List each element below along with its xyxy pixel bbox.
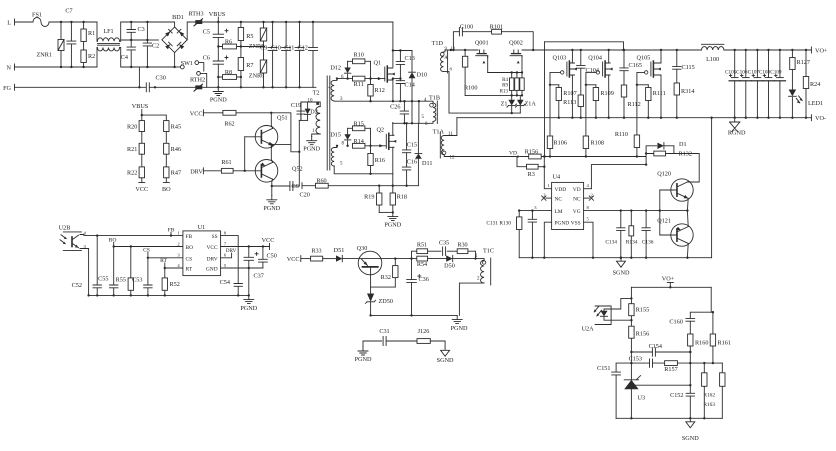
wire fb bottom rail xyxy=(616,417,722,419)
resistor R24 xyxy=(803,50,808,118)
capacitor C31 xyxy=(383,337,386,346)
label U2B pin4 xyxy=(84,231,87,236)
wire R3/R156 join xyxy=(544,157,551,189)
wire T1C top xyxy=(481,259,484,261)
label SGND fb2 xyxy=(682,435,699,442)
pin circle Q104 gate xyxy=(596,71,599,74)
label T2 xyxy=(313,90,320,97)
wire R33 to D51 xyxy=(323,258,336,260)
label U1 pin6 xyxy=(224,253,227,258)
wire Q104 gate xyxy=(586,72,596,84)
svg-text:FG: FG xyxy=(3,85,11,92)
transistor Q51 xyxy=(255,126,278,149)
wire divider left xyxy=(141,115,143,121)
capacitor C151 xyxy=(612,372,621,418)
resistor R6 xyxy=(218,44,241,49)
wire Q51 collector xyxy=(271,113,272,129)
capacitor C11 xyxy=(295,22,304,87)
label C2 xyxy=(152,43,159,50)
label R107 xyxy=(563,90,576,97)
svg-text:C53: C53 xyxy=(132,277,142,284)
junction VCC q5 xyxy=(270,112,272,114)
label VCC q5 xyxy=(190,110,203,117)
svg-text:Q002: Q002 xyxy=(509,40,523,47)
svg-text:PGND: PGND xyxy=(451,325,468,332)
svg-text:C100: C100 xyxy=(460,24,473,31)
resistor R155 xyxy=(629,298,634,320)
label VCC div xyxy=(135,186,148,193)
wire fb top line xyxy=(631,286,711,288)
wire U4 VSS pin xyxy=(584,222,593,258)
resistor R160 xyxy=(688,334,693,363)
svg-text:R157: R157 xyxy=(664,366,677,373)
resistor R111 xyxy=(646,85,651,118)
label R156 xyxy=(525,149,538,156)
label R132 xyxy=(679,151,692,158)
svg-text:C6: C6 xyxy=(203,55,210,62)
label R130 xyxy=(499,220,511,226)
junction gate bottom node xyxy=(511,94,524,96)
switch SW1 contact c xyxy=(197,72,207,88)
capacitor C10 xyxy=(282,22,291,87)
svg-text:C152: C152 xyxy=(670,392,683,399)
svg-text:SGND: SGND xyxy=(437,357,454,364)
wire R21 to next xyxy=(141,154,143,167)
label T1 pin6 xyxy=(341,75,344,80)
label R5 xyxy=(246,33,253,40)
label R163 xyxy=(703,402,715,408)
label U1 pin4 xyxy=(177,263,180,268)
wire C31 to J126 xyxy=(386,340,417,342)
svg-text:R55: R55 xyxy=(116,277,126,284)
node VCC div tick xyxy=(139,182,145,184)
label R30 xyxy=(457,242,467,249)
capacitor C5 xyxy=(213,22,228,47)
label U4 pin8 xyxy=(587,205,590,210)
transistor Q120 xyxy=(671,179,693,201)
svg-text:R113: R113 xyxy=(563,99,576,106)
inductor LF1 top winding xyxy=(97,38,119,41)
wire U1 common rail xyxy=(89,294,249,296)
label T1C pin2 xyxy=(477,277,480,282)
resistor R2 xyxy=(81,45,86,68)
wire Q30 bottom rail xyxy=(371,314,458,316)
wire N to LF1 bottom xyxy=(96,48,98,68)
svg-text:DRV: DRV xyxy=(190,168,203,175)
label R106 xyxy=(554,140,567,147)
wire Q105 gate node to R111 xyxy=(637,84,648,86)
svg-text:A: A xyxy=(444,56,448,61)
wire Q52 collector xyxy=(271,144,272,162)
wire secondary rail xyxy=(522,49,702,51)
svg-text:VO+: VO+ xyxy=(662,275,675,282)
IC U1 pin texts xyxy=(186,234,218,273)
label LF1 xyxy=(103,28,113,35)
wire R46 to next xyxy=(165,154,167,167)
svg-text:J126: J126 xyxy=(418,328,430,335)
wire base riser xyxy=(244,137,246,171)
label R19 xyxy=(364,194,374,201)
resistor R16 xyxy=(368,146,373,174)
svg-text:C30: C30 xyxy=(156,75,166,82)
label C107 xyxy=(748,70,760,76)
junction gate line Q1 xyxy=(336,77,372,79)
junction D1 left xyxy=(645,152,647,154)
svg-text:Q103: Q103 xyxy=(553,55,567,62)
terminal FG xyxy=(14,84,16,90)
label R55 xyxy=(116,277,126,284)
label R47 xyxy=(171,170,181,177)
svg-text:RT: RT xyxy=(160,258,167,264)
resistor R15 xyxy=(348,126,371,131)
svg-text:R11: R11 xyxy=(354,81,364,88)
svg-text:BO: BO xyxy=(186,245,194,251)
resistor R109 xyxy=(593,85,598,118)
label FB u1 xyxy=(168,227,175,233)
wire bridge top to rail xyxy=(173,22,176,27)
svg-text:T2: T2 xyxy=(313,90,320,97)
wire RTH3 to VBUS xyxy=(203,21,219,23)
capacitor C2 xyxy=(143,22,151,67)
label C7 xyxy=(65,8,72,15)
svg-text:11: 11 xyxy=(448,132,453,137)
resistor R12 xyxy=(368,79,373,102)
svg-text:CS: CS xyxy=(143,247,150,253)
transistor Q2 MOSFET xyxy=(386,133,396,149)
label C100 xyxy=(460,24,473,31)
label R100 xyxy=(464,85,477,92)
inductor LF1 bottom winding xyxy=(97,48,119,51)
svg-text:VCC: VCC xyxy=(262,237,275,244)
ground PGND j126 xyxy=(358,347,368,355)
label C15 xyxy=(407,142,417,149)
label R108 xyxy=(591,140,604,147)
label T2 pin10 xyxy=(308,99,314,104)
svg-text:D10: D10 xyxy=(417,72,428,79)
svg-text:VD: VD xyxy=(573,187,581,193)
resistor R7 xyxy=(238,47,243,78)
label T2 pin1 xyxy=(312,129,315,134)
resistor R108 xyxy=(583,85,588,157)
label C4 xyxy=(121,54,128,61)
resistor R47 xyxy=(164,167,169,178)
svg-text:ZNR1: ZNR1 xyxy=(37,52,52,59)
label R3 xyxy=(528,171,535,178)
resistor R1 xyxy=(81,22,86,45)
label C152 xyxy=(670,392,683,399)
svg-text:R9: R9 xyxy=(502,84,508,89)
ground SGND fb xyxy=(686,418,695,428)
svg-text:D51: D51 xyxy=(334,247,345,254)
wire DRV line xyxy=(203,170,261,172)
svg-text:R7: R7 xyxy=(246,62,253,69)
svg-text:R161: R161 xyxy=(718,340,731,347)
wire U4 VG pin xyxy=(584,210,688,212)
svg-text:C3: C3 xyxy=(138,26,145,33)
wire U2B emitter xyxy=(80,249,89,296)
label R2 xyxy=(88,53,95,60)
junction output rail xyxy=(734,49,808,51)
svg-text:C160: C160 xyxy=(669,318,682,325)
label R60 xyxy=(316,178,326,185)
wire RTH2 to PGND rail xyxy=(203,86,317,88)
junction bottom rail xyxy=(558,117,808,119)
svg-text:R160: R160 xyxy=(695,340,708,347)
label R62 xyxy=(224,121,234,128)
svg-text:Q104: Q104 xyxy=(588,55,602,62)
label C108 xyxy=(759,70,771,76)
svg-text:C7: C7 xyxy=(65,8,72,15)
label C54 xyxy=(220,279,230,286)
ground PGND bulk xyxy=(213,87,223,95)
svg-text:D15: D15 xyxy=(330,132,341,139)
wire CS line u1 xyxy=(148,257,183,259)
wire T1A pin11 riser xyxy=(444,118,457,136)
capacitor C160 xyxy=(686,312,713,334)
thermistor RTH3 xyxy=(194,19,203,26)
resistor R13 xyxy=(520,73,524,96)
junction FB line xyxy=(96,234,172,236)
capacitor C16 xyxy=(402,166,410,186)
svg-text:PGND: PGND xyxy=(384,222,401,229)
svg-text:Q2: Q2 xyxy=(376,127,384,134)
wire Q51 base xyxy=(245,136,262,138)
wire j126 right xyxy=(430,341,445,347)
label T1D pin910 xyxy=(445,46,448,51)
svg-text:U2B: U2B xyxy=(59,225,71,232)
wire R14 to Q2 gate xyxy=(365,145,386,147)
label D12 xyxy=(330,65,341,72)
label T1 pin5 xyxy=(340,162,343,167)
label R61 xyxy=(221,159,231,166)
label ZNR6 xyxy=(249,73,264,80)
junction bridge bottom xyxy=(173,66,175,68)
capacitor C107 xyxy=(752,50,763,118)
junction gate line Q2 xyxy=(346,145,371,147)
wire Q1 drain stub xyxy=(391,67,394,69)
label VCC q30 xyxy=(287,256,300,263)
label PGND u1 xyxy=(240,305,257,312)
label C154 xyxy=(649,343,662,350)
wire gate resistor top node xyxy=(488,72,522,74)
junction C100 right xyxy=(532,49,534,51)
capacitor C134 xyxy=(617,211,625,258)
junction T1C node xyxy=(474,257,476,259)
junction R106 bottom xyxy=(549,155,551,157)
label N xyxy=(7,65,12,72)
label Q002 xyxy=(509,40,523,47)
terminal VO+ fb xyxy=(667,282,673,284)
label PGND Q2 xyxy=(384,222,401,229)
zener ZD50 xyxy=(366,294,376,316)
label R110 xyxy=(615,131,628,138)
label Q104 xyxy=(588,55,602,62)
svg-text:R106: R106 xyxy=(554,140,567,147)
svg-text:PGND: PGND xyxy=(303,146,320,153)
wire R22 to VCC xyxy=(141,178,143,183)
bridge BD1 diode 1 xyxy=(165,29,172,36)
svg-text:L100: L100 xyxy=(706,56,719,63)
transformer T2 phase dot xyxy=(316,102,319,105)
shunt regulator U3 xyxy=(624,363,640,418)
svg-text:R18: R18 xyxy=(397,194,407,201)
wire Q30 collector to zener xyxy=(370,275,372,294)
junction line B xyxy=(645,163,647,165)
svg-text:R109: R109 xyxy=(600,90,613,97)
svg-text:D2: D2 xyxy=(310,109,318,116)
svg-text:R62: R62 xyxy=(224,121,234,128)
svg-text:C11: C11 xyxy=(284,45,294,52)
label R11 xyxy=(354,81,364,88)
wire Q1 body stub xyxy=(391,73,394,75)
svg-text:C31: C31 xyxy=(379,328,389,335)
svg-text:PGND: PGND xyxy=(263,205,280,212)
resistor R33 xyxy=(311,256,323,261)
svg-text:D11: D11 xyxy=(422,160,432,167)
label J126 xyxy=(418,328,430,335)
wire to LF1 top xyxy=(96,22,98,41)
zener Z1 xyxy=(507,95,517,113)
wire rail1 xyxy=(334,100,419,102)
resistor R60 xyxy=(316,183,329,188)
junction c160 node xyxy=(712,311,714,313)
transformer T2 winding xyxy=(316,107,320,135)
wire Q105 drain xyxy=(658,50,661,63)
junction fb top xyxy=(669,286,671,288)
resistor R9 xyxy=(515,73,519,96)
capacitor C26 xyxy=(400,101,408,123)
junction C26 top xyxy=(403,100,405,102)
junction C2 xyxy=(130,21,149,68)
optocoupler U2B xyxy=(60,232,81,251)
ground PGND T2 xyxy=(307,137,317,145)
bridge BD1 diode 4 xyxy=(177,42,184,49)
wire T1D bottom return xyxy=(444,72,521,114)
junction VCC pin xyxy=(248,245,264,247)
transformer T1A phase xyxy=(443,151,446,154)
junction Q30 right xyxy=(394,257,413,259)
label T1 pin3 xyxy=(340,97,343,102)
svg-text:LM: LM xyxy=(555,209,563,215)
wire fuse to rail xyxy=(49,21,97,23)
svg-text:R33: R33 xyxy=(311,248,321,255)
svg-text:T1C: T1C xyxy=(483,248,494,255)
wire R101 to rail right xyxy=(502,32,534,50)
wire VCC right jog xyxy=(271,113,299,152)
label L100 xyxy=(706,56,719,63)
svg-text:R100: R100 xyxy=(464,85,477,92)
capacitor C7 xyxy=(67,22,76,67)
IC U4 NC left stub xyxy=(542,196,552,200)
transistor Q002 MOSFET xyxy=(510,50,522,63)
capacitor C153 xyxy=(631,359,664,367)
resistor R45 xyxy=(164,121,169,132)
wire rail after L100 xyxy=(724,49,812,51)
label PGND q52 xyxy=(263,205,280,212)
svg-text:ZD50: ZD50 xyxy=(379,298,393,305)
wire VD net line xyxy=(544,156,646,158)
svg-text:C54: C54 xyxy=(220,279,230,286)
svg-text:PGND: PGND xyxy=(355,356,372,363)
label R134 xyxy=(626,240,638,246)
resistor R52 xyxy=(162,268,167,295)
transformer T1A core xyxy=(439,132,441,158)
diode D2 xyxy=(305,102,311,120)
diode D10 xyxy=(409,51,416,124)
junction C30 right xyxy=(138,86,156,88)
wire source to C13/C14 mid xyxy=(393,78,401,80)
wire T2 top xyxy=(311,102,320,107)
transformer T1C phase xyxy=(482,261,485,264)
label U3 xyxy=(638,395,646,402)
svg-text:R4: R4 xyxy=(502,78,508,83)
resistor R161 xyxy=(710,334,715,363)
label R160 xyxy=(695,340,708,347)
bridge BD1 outline xyxy=(162,27,187,53)
label U2B xyxy=(59,225,71,232)
transistor Q103 MOSFET xyxy=(567,61,577,77)
label R10 xyxy=(354,52,364,59)
wire divider split xyxy=(142,115,167,121)
label U4 pin1 xyxy=(547,183,550,188)
wire Q2 source xyxy=(393,147,394,185)
capacitor C55 xyxy=(110,247,118,296)
terminal VCC q30 xyxy=(300,256,302,262)
wire R54 to D50 xyxy=(428,258,446,260)
wire snubber top xyxy=(393,50,412,52)
wire N line xyxy=(15,66,98,68)
junction C154 ends xyxy=(630,351,691,353)
wire bridge right up xyxy=(187,22,195,40)
label C55 xyxy=(98,276,108,283)
label R24 xyxy=(810,81,820,88)
capacitor C37 xyxy=(244,247,258,269)
svg-text:VDD: VDD xyxy=(555,187,567,193)
svg-text:R111: R111 xyxy=(653,90,666,97)
resistor R130 xyxy=(517,211,522,258)
node DRV tick u1 xyxy=(221,253,232,258)
svg-text:D12: D12 xyxy=(330,65,341,72)
label D2 xyxy=(310,109,318,116)
terminal VO- xyxy=(810,115,812,121)
node BO tick xyxy=(113,243,115,247)
switch SW1 contact a xyxy=(180,65,184,69)
label BD1 xyxy=(172,14,184,21)
junction dots N line xyxy=(60,66,85,68)
capacitor C165 xyxy=(620,50,628,85)
svg-text:BD1: BD1 xyxy=(172,14,184,21)
resistor J126 xyxy=(417,339,430,344)
label C19 xyxy=(291,102,301,109)
wire T1B top lead xyxy=(419,101,433,103)
label R109 xyxy=(600,90,613,97)
junction divider top xyxy=(141,114,143,116)
svg-text:SS: SS xyxy=(212,234,218,240)
label R16 xyxy=(375,157,385,164)
junction VG line xyxy=(620,209,689,211)
resistor R14 xyxy=(353,143,365,148)
transformer T1D winding xyxy=(441,52,444,72)
resistor R51 xyxy=(417,249,428,254)
svg-text:RTH3: RTH3 xyxy=(188,11,203,18)
capacitor C106 xyxy=(740,50,751,118)
svg-text:C104: C104 xyxy=(586,67,599,74)
label ZD50 xyxy=(379,298,393,305)
wire T2 drive top xyxy=(301,102,312,120)
svg-text:FB: FB xyxy=(186,234,193,240)
svg-text:C115: C115 xyxy=(682,64,695,71)
node CS tick xyxy=(147,253,149,258)
